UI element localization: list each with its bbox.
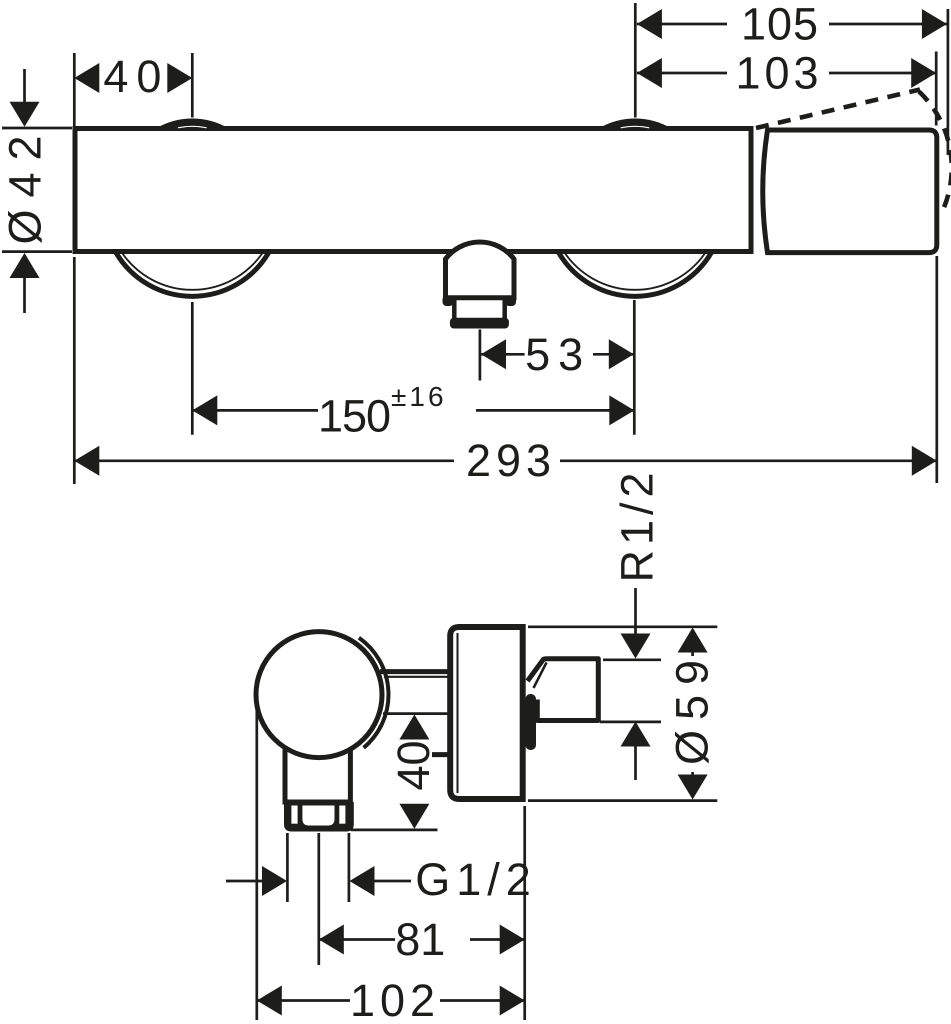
outlet nut white slots — [291, 806, 297, 824]
R1/2 lower arrow — [621, 722, 651, 747]
dimension 40 (side) arrows — [399, 715, 429, 740]
escutcheon bottom extension line — [528, 799, 717, 802]
svg-text:40: 40 — [103, 51, 169, 102]
spout outlet base line — [443, 295, 517, 300]
lever shaft bottom line / 40 upper reference — [383, 712, 448, 715]
wall escutcheon inner face line — [457, 633, 459, 793]
R1/2 leader line and arrow — [634, 588, 637, 642]
pipe connector inner chamfer line — [534, 663, 547, 689]
spout housing body (side view) — [285, 730, 350, 802]
dimension 40 arrows — [74, 63, 99, 93]
extension line from knob left edge — [255, 705, 258, 1020]
handle raised dashed line — [756, 90, 920, 129]
dimension 103 extension line — [935, 52, 938, 126]
dimension 40 extension line right — [191, 53, 194, 118]
dimension 53 arrows — [481, 339, 506, 369]
dimension 293 extension lines — [73, 257, 76, 484]
handle knob circle — [256, 632, 382, 758]
svg-text:Ø42: Ø42 — [0, 123, 51, 244]
extension line from outlet right edge — [348, 833, 351, 902]
set screw stub — [432, 752, 449, 757]
spout step sides — [454, 300, 504, 319]
svg-text:40: 40 — [388, 740, 439, 790]
svg-text:105: 105 — [741, 0, 819, 50]
dimension 81 arrows — [319, 925, 344, 955]
svg-text:G1/2: G1/2 — [415, 854, 537, 905]
check valve tab — [525, 694, 536, 750]
left escutcheon arc (below body) — [116, 252, 270, 297]
svg-text:293: 293 — [466, 435, 556, 486]
svg-text:81: 81 — [395, 914, 445, 965]
lever shaft top edge — [380, 669, 448, 674]
right escutcheon arc (below body) — [558, 252, 712, 297]
dimension 81 line — [319, 938, 395, 941]
extension line from outlet left edge — [286, 833, 289, 902]
40 lower reference line — [351, 829, 438, 832]
dimension Ø59 line and arrows — [678, 628, 708, 653]
lever shaft inner line — [384, 676, 448, 678]
dimension 40 extension line left — [73, 53, 76, 126]
dimension 105 line — [637, 23, 727, 26]
dimension 150 line — [192, 409, 318, 412]
svg-text:53: 53 — [525, 329, 591, 380]
spout step bottom band — [450, 318, 509, 329]
dimension 293 arrows — [74, 446, 99, 476]
dimension G1/2 left line and arrow — [226, 880, 263, 883]
svg-text:R1/2: R1/2 — [612, 467, 663, 582]
outlet nut (side view) — [284, 802, 354, 832]
mixer body (top view) — [75, 129, 751, 252]
handle raised dashed arc — [919, 92, 951, 214]
dimension 53 line — [481, 353, 525, 356]
dimension 293 line — [74, 459, 454, 462]
connector top extension line — [603, 658, 661, 661]
dimension 150 extension line left — [191, 302, 194, 435]
svg-text:102: 102 — [350, 975, 440, 1024]
dimension Ø42 line and arrows — [23, 69, 26, 124]
svg-text:±16: ±16 — [391, 381, 447, 412]
dimension 53 extension lines — [479, 330, 482, 381]
handle (top view) — [763, 130, 937, 253]
connector bottom extension line — [600, 721, 661, 724]
dimension G1/2 right arrow and leader — [350, 866, 375, 896]
svg-text:103: 103 — [735, 48, 822, 99]
dimension 105 extension lines — [634, 3, 637, 118]
left escutcheon arc inner line — [121, 252, 263, 290]
dimension 102 line — [257, 999, 350, 1002]
dimension 102 arrows — [257, 986, 282, 1016]
pipe connector (behind escutcheon) — [528, 659, 599, 721]
dimension 103 line — [637, 72, 727, 75]
wall escutcheon (side view) — [450, 627, 523, 799]
handle knob outer arc — [359, 638, 389, 748]
spout right shoulder — [505, 296, 516, 307]
svg-text:Ø59: Ø59 — [667, 650, 718, 765]
escutcheon top extension line — [528, 625, 717, 628]
dimension 150 arrows — [192, 395, 217, 425]
dimension 103 arrows — [637, 58, 662, 88]
extension line outlet centreline — [317, 833, 320, 965]
extension line wall face — [523, 806, 526, 1020]
outlet nut centre window — [302, 806, 334, 826]
svg-text:150: 150 — [318, 391, 390, 442]
spout outlet dome (top view) — [446, 242, 515, 298]
left escutcheon bump (top edge) — [156, 119, 229, 129]
dimension 105 arrows — [637, 9, 662, 39]
right escutcheon arc inner line — [564, 252, 706, 290]
right escutcheon bump (top edge) — [599, 119, 672, 129]
spout left shoulder — [443, 296, 454, 307]
dimension Ø42 extension lines — [2, 127, 72, 130]
